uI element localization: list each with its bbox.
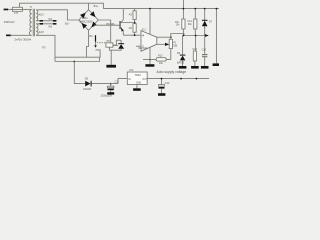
bridge diode top-right bbox=[90, 11, 96, 17]
wire center tap 2 bbox=[36, 23, 56, 25]
wire opamp V+ bbox=[149, 9, 151, 35]
wire right edge drop bbox=[215, 9, 217, 64]
svg-text:R13: R13 bbox=[158, 55, 163, 58]
ground C12 bbox=[158, 93, 165, 96]
wire bridge plus to top rail bbox=[88, 3, 90, 10]
junction dot out2 bbox=[196, 78, 198, 80]
wire C13 hang bbox=[195, 36, 197, 52]
transformer secondary winding 1 bbox=[36, 10, 38, 21]
diode D7 bbox=[202, 9, 213, 28]
arrow out bbox=[205, 34, 209, 37]
wire bottom loop lower bbox=[55, 58, 100, 62]
resistor R4 bbox=[129, 23, 136, 33]
capacitor C11 bbox=[101, 81, 120, 98]
transformer secondary winding 2 bbox=[36, 24, 38, 36]
wire center tap 1 bbox=[36, 20, 56, 22]
svg-text:(B80C2500): (B80C2500) bbox=[80, 21, 93, 24]
svg-text:W1: W1 bbox=[48, 18, 52, 21]
wire secondary top lead bbox=[36, 10, 78, 20]
resistor R3 bbox=[129, 9, 136, 20]
svg-text:C15: C15 bbox=[202, 49, 207, 52]
svg-text:BC546: BC546 bbox=[107, 22, 115, 26]
bridge diode bottom-right bbox=[91, 22, 97, 28]
wire top feed bbox=[20, 3, 104, 8]
svg-text:B1-: B1- bbox=[90, 34, 94, 38]
transistor Q1 base wire bbox=[94, 24, 119, 26]
wire collector to rail bbox=[122, 9, 124, 18]
svg-text:42V: 42V bbox=[39, 30, 44, 34]
ground C13 bbox=[191, 66, 199, 69]
junction dot C12 bbox=[161, 78, 163, 80]
resistor R6 bbox=[106, 40, 113, 47]
bus zener row bbox=[183, 26, 204, 35]
wire bottom loop upper bbox=[55, 50, 100, 57]
ground right edge bbox=[213, 63, 219, 66]
wire opamp output upper pin bbox=[157, 36, 171, 38]
svg-text:C13: C13 bbox=[192, 48, 197, 51]
wire D6 hang bbox=[182, 36, 184, 55]
svg-text:C12: C12 bbox=[165, 82, 170, 85]
fuse F1 bbox=[12, 7, 22, 15]
svg-text:IC2: IC2 bbox=[129, 69, 134, 72]
ground D6 bbox=[179, 66, 187, 69]
bridge diode bottom-left bbox=[82, 23, 88, 29]
wire secondary bottom lead bbox=[36, 35, 55, 61]
junction dot emitter node bbox=[134, 34, 136, 36]
wire base node bbox=[121, 19, 135, 22]
bus mid with arrow bbox=[183, 35, 205, 37]
svg-text:IC1: IC1 bbox=[142, 27, 147, 31]
wire D4 down bbox=[109, 47, 121, 50]
svg-text:Auto supply voltage: Auto supply voltage bbox=[157, 70, 187, 74]
diode D5 bbox=[83, 78, 109, 91]
junction dot C11 bbox=[110, 83, 112, 85]
svg-text:1N4007: 1N4007 bbox=[83, 88, 92, 91]
svg-text:4TT: 4TT bbox=[14, 12, 19, 15]
AC neutral terminal bbox=[6, 35, 11, 37]
wire divider to opamp plus input bbox=[123, 32, 141, 35]
wire IC2 out bbox=[147, 78, 209, 80]
wire R6 to D4 bbox=[113, 40, 121, 45]
junction dot output-pot bbox=[170, 36, 172, 38]
junction dot bus C13 bbox=[195, 35, 197, 37]
terminal W2 bbox=[40, 23, 57, 29]
svg-text:IN: IN bbox=[128, 79, 131, 81]
diode D6 bbox=[177, 52, 185, 66]
junction dot base-divider bbox=[134, 22, 136, 24]
wire C11 to IC2 bbox=[109, 79, 128, 84]
svg-text:OUT: OUT bbox=[142, 79, 147, 81]
wire opamp V- bbox=[149, 47, 151, 59]
transformer core bbox=[33, 9, 34, 36]
capacitor C12 bbox=[159, 79, 170, 94]
resistor R9 bbox=[175, 19, 185, 29]
bridge diode top-left bbox=[80, 13, 86, 19]
wire fuse to primary bbox=[22, 8, 31, 10]
svg-text:230V/AC: 230V/AC bbox=[4, 20, 15, 24]
junction dot rail V+ bbox=[149, 8, 151, 10]
adjust arrow bbox=[94, 35, 97, 47]
svg-text:B1+: B1+ bbox=[94, 4, 99, 8]
ground IC2 bbox=[133, 85, 141, 91]
dashed link bbox=[97, 42, 106, 44]
svg-text:GND: GND bbox=[136, 82, 141, 84]
svg-text:BAT85: BAT85 bbox=[177, 62, 185, 65]
svg-text:B1~: B1~ bbox=[65, 22, 70, 26]
svg-text:P3: P3 bbox=[42, 45, 46, 49]
svg-text:W2: W2 bbox=[48, 26, 52, 29]
terminal W1 bbox=[40, 18, 57, 22]
transistor Q1 bbox=[107, 18, 124, 36]
AC live terminal bbox=[4, 9, 9, 11]
wire live to fuse bbox=[8, 8, 12, 10]
wire neutral to primary bbox=[11, 34, 32, 36]
trimmer P1 bbox=[165, 34, 184, 60]
ground C11 bbox=[107, 92, 114, 94]
regulator IC2 7812 bbox=[127, 69, 148, 85]
ground C15 bbox=[201, 66, 209, 69]
op-amp IC1 bbox=[138, 27, 157, 51]
ground G1 bbox=[106, 50, 116, 67]
wire bridge right vertex down bbox=[98, 20, 110, 43]
ground opamp V- bbox=[145, 60, 154, 67]
svg-text:C11: C11 bbox=[115, 81, 120, 84]
wire R9 top bbox=[182, 0, 184, 19]
junction dot out1 bbox=[180, 78, 182, 80]
junction dot rail C14 bbox=[194, 8, 196, 10]
svg-text:2200µ/25V: 2200µ/25V bbox=[101, 94, 113, 97]
svg-text:42V: 42V bbox=[38, 13, 43, 17]
top supply rail bbox=[103, 8, 219, 10]
junction dot rail D7 bbox=[204, 8, 206, 10]
junction dot rail R9 bbox=[183, 8, 185, 10]
svg-text:Tr: Tr bbox=[30, 5, 33, 9]
junction dot bus D6 bbox=[183, 35, 185, 37]
wire V- row bbox=[143, 59, 171, 61]
wire down to D5 row bbox=[74, 62, 85, 84]
transformer Tr primary winding bbox=[29, 9, 31, 35]
resistor R13 bbox=[156, 55, 166, 65]
bridge rectifier BR1 diamond bbox=[79, 10, 99, 31]
wire opamp minus input bbox=[136, 45, 141, 47]
junction dot rail right bbox=[216, 8, 218, 10]
wire bridge minus down bbox=[86, 30, 88, 57]
capacitor C13 bbox=[192, 48, 197, 66]
svg-text:BR1: BR1 bbox=[82, 16, 88, 20]
svg-text:7812: 7812 bbox=[135, 73, 142, 77]
svg-text:2x42V 300VA: 2x42V 300VA bbox=[14, 38, 31, 42]
diode D4 bbox=[118, 43, 124, 49]
svg-text:39n: 39n bbox=[188, 23, 193, 26]
wire opamp output lower pin bbox=[157, 43, 165, 45]
capacitor C14 bbox=[187, 9, 197, 29]
junction dot V- row bbox=[149, 59, 151, 61]
junction dot loop bbox=[73, 61, 75, 63]
svg-text:OPA541: OPA541 bbox=[138, 47, 148, 50]
capacitor C15 bbox=[202, 36, 208, 67]
